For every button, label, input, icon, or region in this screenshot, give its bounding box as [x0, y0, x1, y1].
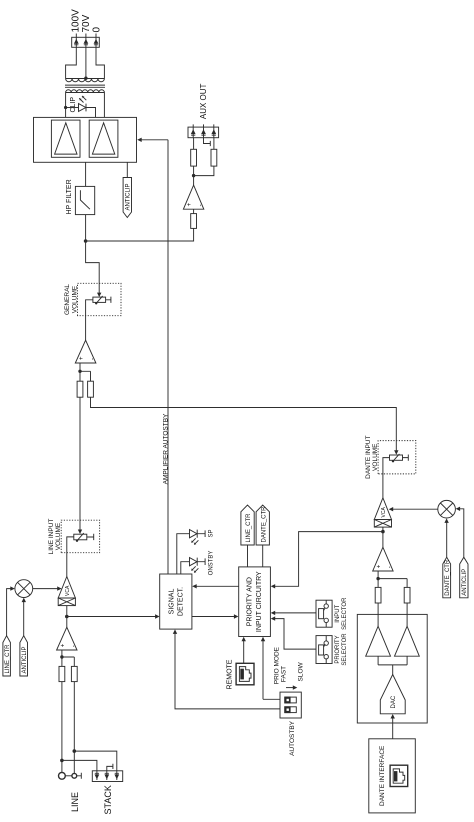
stack terminal block: [92, 771, 122, 782]
wire priority selector to priority: [271, 616, 316, 649]
wire line in upper: [61, 682, 63, 773]
resistor R9: [211, 149, 217, 166]
svg-text:+: +: [187, 202, 193, 206]
aux out terminal block: [188, 124, 219, 137]
svg-text:INPUT CIRCUITRY: INPUT CIRCUITRY: [256, 571, 263, 632]
RJ45 remote: [236, 663, 254, 685]
svg-text:+: +: [79, 356, 85, 360]
tag ANTICLIP (line): [20, 636, 28, 676]
tag LINE_CTR (priority): [241, 505, 254, 567]
wire ANTICLIP to mixer2: [456, 507, 464, 558]
svg-text:LINE INPUT: LINE INPUT: [48, 519, 55, 555]
output terminal block J1 (100V/70V/0): [72, 34, 100, 48]
wire to stack t3: [74, 751, 117, 771]
transformer TR1: [65, 79, 105, 93]
RJ45 dante: [390, 765, 408, 786]
wire buffer A to resistor: [377, 603, 379, 626]
dante input volume dashed box: [378, 441, 416, 474]
LED CLIP D1: [64, 96, 96, 118]
svg-text:+: +: [60, 643, 66, 647]
amp channel B: [89, 120, 118, 157]
VCA2 (dante path): [374, 498, 391, 527]
svg-text:VOLUME: VOLUME: [372, 443, 379, 471]
svg-text:PRIORITY: PRIORITY: [335, 635, 341, 663]
svg-text:LINE_CTR: LINE_CTR: [246, 513, 252, 543]
svg-text:SLOW: SLOW: [297, 661, 304, 681]
dac buffer A: [366, 626, 391, 656]
svg-text:ANTICLIP: ANTICLIP: [462, 569, 468, 596]
tag DANTE_CTR (mixer2): [443, 557, 451, 598]
wire buffer B to resistor: [406, 603, 408, 626]
potentiometer general volume: [93, 296, 111, 305]
HP filter F1: [75, 186, 94, 214]
svg-text:DANTE INPUT: DANTE INPUT: [365, 436, 372, 479]
svg-text:AUX OUT: AUX OUT: [199, 83, 208, 119]
svg-text:+: +: [376, 564, 382, 568]
wire SD to SP led: [177, 534, 190, 574]
wire mixer1 to VCA1: [33, 586, 62, 590]
wire dante node to priority: [271, 532, 383, 589]
svg-text:AUTOSTBY: AUTOSTBY: [289, 720, 296, 756]
dac buffer B: [395, 626, 420, 656]
svg-text:LINE: LINE: [70, 792, 80, 812]
anticlip tag (amp): [123, 162, 132, 217]
general volume dashed box: [78, 283, 122, 315]
wire input selector to priority: [271, 611, 316, 615]
resistor R8: [191, 149, 197, 166]
svg-text:ANTICLIP: ANTICLIP: [22, 646, 28, 673]
wire center tap: [85, 47, 87, 78]
svg-text:VCA: VCA: [381, 507, 387, 518]
LED ONSTBY: [190, 558, 206, 573]
wire VCA2 to dante pot: [383, 458, 390, 498]
wire SD to ONSTBY led: [181, 562, 190, 574]
wire junction to aux: [86, 228, 194, 241]
wire SD to priority: [192, 614, 239, 618]
mixer M2 (dante ctr): [438, 500, 456, 518]
svg-text:INPUT: INPUT: [335, 604, 341, 622]
op-amp U3 (line input): [57, 627, 78, 650]
svg-text:LINE_CTR: LINE_CTR: [5, 644, 11, 674]
wire U2 input node: [80, 363, 91, 371]
svg-text:VOLUME: VOLUME: [71, 285, 78, 313]
node main junction: [84, 239, 88, 243]
wire to stack t1: [62, 760, 97, 770]
svg-text:SIGNAL: SIGNAL: [169, 589, 176, 615]
svg-text:ANTICLIP: ANTICLIP: [126, 183, 132, 210]
priority and input circuitry box: [239, 567, 271, 637]
node stack tap 2: [73, 749, 77, 753]
tag ANTICLIP (mixer2): [460, 557, 469, 598]
wire DANTE_CTR to mixer2: [444, 518, 448, 557]
wire dante-pot wiper to R2: [91, 397, 399, 455]
wire autostby dip to signal detect: [173, 629, 280, 709]
op-amp U2 (general volume stage): [75, 340, 96, 363]
svg-text:100V: 100V: [71, 9, 82, 33]
node VCA1 input: [65, 615, 69, 619]
wire LINE_CTR to mixer: [7, 586, 15, 635]
dip switch AUTOSTBY: [280, 692, 301, 718]
DAC converter: [380, 675, 405, 714]
wire dante interface to DAC: [391, 714, 395, 739]
potentiometer line input volume: [74, 533, 94, 542]
wire amplifier autostby: [137, 138, 168, 574]
svg-text:DETECT.: DETECT.: [178, 587, 185, 616]
wire between line connectors: [65, 775, 72, 777]
signal detect box: [160, 574, 192, 629]
wire autostby dip to priority: [261, 637, 280, 700]
amp channel A: [51, 120, 80, 157]
node stack tap 1: [60, 759, 64, 763]
tag DANTE_CTR (priority): [256, 505, 269, 567]
tag LINE_CTR: [3, 636, 11, 676]
resistor R5: [375, 587, 381, 603]
wire DAC to output amps: [378, 656, 407, 674]
svg-text:PRIORITY AND: PRIORITY AND: [247, 577, 254, 626]
wire junction to HP filter: [85, 215, 87, 241]
node aux out: [193, 166, 195, 185]
potentiometer dante input volume: [390, 454, 409, 463]
wire ANTICLIP to mixer: [22, 598, 26, 636]
svg-text:AMPLIFIER AUTOSTBY: AMPLIFIER AUTOSTBY: [162, 413, 169, 484]
svg-text:VOLUME: VOLUME: [55, 522, 62, 550]
connector LINE signal: [59, 772, 66, 779]
wire VCA1 out to line pot: [67, 537, 74, 577]
resistor R2 (U2 - input): [88, 381, 94, 397]
LED SP: [190, 530, 206, 545]
priority selector box: [316, 636, 332, 664]
wire secondary to terminals: [66, 47, 105, 78]
wire pot wiper to junction: [86, 241, 100, 294]
arrow fast-slow: [286, 685, 297, 689]
op-amp U4 (dante input): [373, 547, 394, 571]
mixer M1 (line ctr): [15, 580, 33, 598]
svg-text:DANTE INTERFACE: DANTE INTERFACE: [379, 745, 386, 806]
svg-text:-: -: [387, 566, 393, 568]
wire primary to amp box: [66, 93, 105, 118]
svg-text:GENERAL: GENERAL: [64, 284, 71, 315]
svg-text:SELECTOR: SELECTOR: [342, 633, 348, 666]
svg-text:SELECTOR: SELECTOR: [342, 597, 348, 630]
power amp box U1: [34, 117, 137, 162]
wire U3 input node: [62, 650, 74, 657]
svg-text:SP: SP: [209, 529, 215, 537]
svg-text:CLIP: CLIP: [70, 97, 77, 113]
wire line in lower: [73, 682, 75, 774]
svg-text:-: -: [71, 645, 77, 647]
svg-text:ONSTBY: ONSTBY: [209, 551, 215, 576]
wire line-pot wiper to R1: [79, 397, 81, 530]
svg-text:70V: 70V: [81, 14, 92, 32]
svg-text:DANTE_CTR: DANTE_CTR: [445, 559, 451, 596]
svg-text:FAST: FAST: [281, 666, 288, 682]
wire to lower aux resistor: [194, 166, 214, 176]
resistor R3: [59, 666, 65, 681]
wire opamp to pot: [86, 300, 93, 340]
wire HP filter to amp: [85, 162, 87, 186]
node VCA2 input: [382, 527, 384, 547]
resistor R4: [71, 666, 77, 681]
svg-text:VCA: VCA: [65, 585, 71, 596]
svg-text:DAC: DAC: [391, 695, 397, 708]
dante interface box: [369, 739, 416, 813]
VCA1 (line path): [58, 577, 75, 606]
wire node to signal detect: [67, 614, 160, 618]
line input volume dashed box: [61, 520, 99, 553]
resistor R1 (U2 + input): [77, 381, 83, 397]
op-amp U5 (aux out): [183, 185, 204, 209]
input selector box: [316, 600, 332, 627]
svg-text:DANTE_CTR: DANTE_CTR: [261, 506, 267, 543]
aux mid terminal jumper: [204, 138, 211, 146]
svg-text:STACK: STACK: [103, 785, 113, 814]
wire U4 input node: [378, 571, 407, 579]
connector LINE ground: [72, 773, 77, 778]
resistor R7 (aux in): [191, 214, 197, 229]
svg-text:0: 0: [92, 27, 103, 33]
wire mixer2 to VCA2: [389, 507, 438, 511]
svg-text:HP FILTER: HP FILTER: [66, 179, 73, 214]
svg-text:-: -: [90, 358, 96, 360]
stack t2 end bar: [107, 764, 113, 771]
wire priority to SD: [192, 584, 239, 588]
svg-text:REMOTE: REMOTE: [227, 659, 234, 689]
resistor R6: [404, 587, 410, 603]
dac section box: [357, 614, 427, 723]
wire remote to priority: [242, 637, 246, 664]
line connector end bar: [77, 773, 82, 779]
svg-text:-: -: [198, 204, 204, 206]
